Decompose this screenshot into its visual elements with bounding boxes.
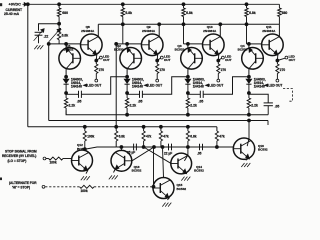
- resistor 270 stage 1: [95, 61, 97, 65]
- wire Q16 collector: [247, 139, 249, 147]
- wire emitter tap stage 3: [218, 58, 221, 60]
- svg-text:RECEIVER (9V LEVEL): RECEIVER (9V LEVEL): [2, 154, 36, 158]
- ground Q15 bottom: [168, 197, 170, 200]
- svg-text:100k: 100k: [87, 135, 94, 139]
- wire base stage 3: [184, 43, 203, 45]
- ground C1: [34, 45, 37, 49]
- svg-text:6.8k: 6.8k: [249, 11, 256, 15]
- capacitor C6 25uF: [133, 144, 135, 151]
- svg-text:.22: .22: [44, 34, 49, 38]
- potentiometer R2 6.8k: [58, 24, 60, 29]
- capacitor C8 .05 right: [199, 144, 201, 150]
- svg-text:6.8k: 6.8k: [125, 11, 132, 15]
- wire bus A: [66, 110, 268, 115]
- wire C1 to ground: [38, 35, 40, 43]
- node bus C x116: [115, 125, 118, 128]
- node QB collector: [161, 146, 164, 149]
- resistor 100k stop: [49, 157, 63, 160]
- transistor NPN stage 1: [81, 34, 103, 56]
- wire 47k to X node: [143, 141, 145, 147]
- resistor 2.2k stage 2: [126, 93, 128, 98]
- svg-text:.05: .05: [138, 100, 143, 104]
- terminal LED OUT lower stage 1: [95, 79, 98, 82]
- resistor 680 stage 4: [278, 4, 280, 8]
- svg-text:6.8k: 6.8k: [186, 11, 193, 15]
- wire collector riser stage 2: [158, 24, 160, 36]
- node collector line x184: [182, 23, 185, 26]
- wire emitter tap stage 4: [277, 58, 285, 60]
- node diode bottom stage 3: [187, 92, 190, 95]
- svg-text:1N4148: 1N4148: [193, 84, 204, 88]
- capacitor .05 stage 2: [139, 91, 141, 98]
- node X right: [153, 146, 156, 149]
- wire base stage 4: [247, 43, 262, 45]
- node collector line stage 2: [158, 23, 161, 26]
- svg-text:2N4064A: 2N4064A: [81, 29, 95, 33]
- svg-text:'HI' = STOP): 'HI' = STOP): [12, 186, 30, 190]
- node stage2 base tee: [115, 43, 118, 46]
- svg-text:BC532: BC532: [175, 48, 185, 52]
- wire 47k to QB riser: [160, 141, 162, 147]
- terminal stop input: [43, 157, 46, 160]
- svg-text:OUT: OUT: [225, 58, 232, 62]
- capacitor C7 22uF: [168, 144, 170, 151]
- wire collector riser stage 3: [219, 24, 221, 36]
- wire 6.8k to FF wire: [115, 141, 117, 147]
- wire emitter tap stage 1: [96, 58, 99, 60]
- svg-text:680: 680: [62, 11, 68, 15]
- wire alt dashed right: [94, 186, 154, 188]
- resistor 270 stage 4: [276, 61, 278, 65]
- wire alt dashed left: [45, 186, 79, 188]
- wire 6.8k to rightFF collector: [187, 141, 189, 147]
- wire Q13 collector stub: [120, 147, 122, 150]
- wire bus B: [49, 120, 268, 122]
- svg-text:2.2k: 2.2k: [251, 104, 258, 108]
- node bus A stage 4: [248, 113, 251, 116]
- resistor R1 680: [58, 4, 60, 8]
- terminal LED OUT lower stage 4: [276, 79, 279, 82]
- node emitter stage 3: [217, 59, 220, 62]
- transistor Q14 FF right: [171, 153, 192, 174]
- svg-text:BC532: BC532: [114, 48, 124, 52]
- transistor NPN stage 3: [203, 34, 225, 56]
- svg-text:1N4148: 1N4148: [132, 84, 143, 88]
- svg-text:.05: .05: [275, 104, 280, 108]
- wire reset line riser: [48, 44, 50, 121]
- capacitor .05 stage 1: [78, 91, 80, 98]
- svg-text:BC532: BC532: [132, 169, 142, 173]
- transistor NPN stage 2: [141, 34, 163, 56]
- wire cap4 to bus A: [267, 106, 269, 115]
- label LED OUT lower stage 2: [145, 84, 148, 86]
- wire emitter lead stage 3: [217, 55, 219, 61]
- diode stage 2: [126, 77, 128, 80]
- resistor 6.8k x116: [115, 127, 117, 131]
- wire emitter lead stage 2: [156, 55, 158, 61]
- wire PNP collector stage 3: [187, 69, 189, 77]
- transistor Q12 stop: [72, 150, 93, 171]
- node bus C x85: [83, 125, 86, 128]
- svg-text:2N4064A: 2N4064A: [203, 29, 217, 33]
- wire PNP emitter stage 2: [126, 44, 128, 48]
- svg-text:(ALTERNATE FOR: (ALTERNATE FOR: [9, 181, 37, 185]
- node bus A stage 2: [126, 113, 129, 116]
- svg-text:.05: .05: [77, 100, 82, 104]
- svg-text:22 µF: 22 µF: [164, 152, 172, 156]
- svg-text:1N4148: 1N4148: [254, 84, 265, 88]
- node collector line x123: [121, 23, 124, 26]
- resistor 6.8k x188: [187, 127, 189, 131]
- node Q14 collector: [187, 146, 190, 149]
- node rail R3: [182, 3, 185, 6]
- wire stage2 base ext: [116, 43, 123, 45]
- svg-text:6.8k: 6.8k: [119, 135, 125, 139]
- resistor 2.2k stage 4: [248, 93, 250, 98]
- svg-text:(LO = STOP): (LO = STOP): [8, 159, 27, 163]
- node base-emitter stage 2: [126, 43, 129, 46]
- capacitor .05 stage 3: [199, 91, 201, 98]
- diode stage 3: [187, 77, 189, 80]
- label LED OUT lower stage 3: [206, 84, 209, 86]
- capacitor .05 stage 4: [264, 102, 273, 104]
- node rail R4: [245, 3, 248, 6]
- transistor PNP Q4 stage 4: [242, 48, 264, 70]
- node emitter stage 1: [95, 59, 98, 62]
- wire stop base: [63, 158, 72, 160]
- ground Q13: [114, 170, 116, 173]
- wire +9V rail: [28, 3, 280, 5]
- terminal LED OUT upper stage 1: [100, 56, 103, 59]
- wire bus B stub: [267, 121, 269, 126]
- ground Q14: [184, 172, 187, 174]
- resistor 47k x144: [143, 127, 145, 131]
- wire cap left stage 1: [66, 93, 78, 95]
- terminal LED OUT upper stage 4: [285, 56, 288, 59]
- node bus B right: [248, 119, 251, 122]
- svg-text:2N4064A: 2N4064A: [262, 29, 276, 33]
- node diode top stage 1: [65, 75, 68, 78]
- svg-text:1N4148: 1N4148: [71, 84, 82, 88]
- transistor Q13 FF left: [111, 150, 132, 171]
- resistor 270 stage 2: [156, 61, 158, 65]
- svg-text:OUT: OUT: [289, 58, 296, 62]
- node stop collector: [83, 148, 86, 151]
- node X left: [142, 146, 145, 149]
- diode stage 1: [65, 77, 67, 80]
- resistor 100k alt: [80, 185, 94, 188]
- node bus C x188: [187, 125, 190, 128]
- wire emitter lead stage 1: [95, 55, 97, 61]
- terminal alt input: [42, 185, 45, 188]
- svg-text:.05: .05: [197, 151, 202, 155]
- wire coupling stage 2: [142, 77, 188, 95]
- svg-text:BC532: BC532: [194, 169, 204, 173]
- svg-text:LED OUT: LED OUT: [148, 84, 162, 88]
- svg-text:BC532: BC532: [177, 187, 187, 191]
- wire coupling stage 1: [81, 77, 127, 95]
- diode stage 4: [248, 77, 250, 80]
- wire collector riser stage 1: [97, 24, 99, 36]
- transistor PNP Q1 stage 1: [59, 48, 81, 70]
- transistor NPN stage 4: [262, 34, 284, 56]
- svg-text:OUT: OUT: [164, 58, 171, 62]
- node diode bottom stage 1: [65, 92, 68, 95]
- node diode top stage 2: [126, 75, 129, 78]
- transistor PNP Q3 stage 3: [181, 48, 203, 70]
- transistor Q15 bottom: [153, 178, 174, 199]
- wire cap left stage 2: [127, 93, 139, 95]
- artifact left low: [0, 178, 2, 181]
- ground Q12: [86, 169, 88, 174]
- wire PNP emitter stage 4: [248, 44, 250, 48]
- wire PNP emitter stage 1: [65, 44, 67, 48]
- wire stop collector to FF: [85, 147, 116, 149]
- resistor 47k x161: [160, 127, 162, 131]
- node 47k Q16 base: [216, 146, 219, 149]
- svg-text:BC532: BC532: [64, 48, 74, 52]
- node emitter stage 4: [276, 59, 279, 62]
- wire PNP emitter stage 3: [187, 44, 189, 48]
- svg-text:6.8k: 6.8k: [62, 33, 69, 37]
- artifact left top: [0, 3, 2, 6]
- svg-text:OUT: OUT: [103, 58, 110, 62]
- wire cap branch: [39, 24, 60, 31]
- node rail R1: [58, 3, 61, 6]
- label LED OUT lower stage 4: [265, 84, 268, 86]
- svg-text:47k: 47k: [219, 135, 225, 139]
- wire QB collector riser: [163, 147, 164, 178]
- wire collector riser stage 4: [278, 24, 280, 36]
- node bus C x144: [142, 125, 145, 128]
- node bus C x161: [160, 125, 163, 128]
- node diode top stage 4: [248, 75, 251, 78]
- wire 100k to stop collector: [84, 141, 86, 149]
- resistor 6.8k stage 2: [122, 4, 124, 8]
- wire stop hold vertical: [153, 147, 155, 187]
- wire emitter lead stage 4: [276, 55, 278, 61]
- svg-text:2N4064A: 2N4064A: [142, 29, 156, 33]
- transistor PNP Q2 stage 2: [120, 48, 142, 70]
- node emitter stage 2: [156, 59, 159, 62]
- node Q13 collector: [120, 146, 123, 149]
- wire X cross 2: [132, 147, 154, 161]
- svg-text:47k: 47k: [163, 135, 169, 139]
- wire Q14 collector: [184, 155, 188, 161]
- node base-emitter stage 4: [248, 43, 251, 46]
- node diode bottom stage 4: [248, 92, 251, 95]
- svg-text:270: 270: [280, 68, 286, 72]
- wire collector line: [98, 23, 279, 25]
- wire dashed LED OUT stage 4: [283, 89, 292, 102]
- node base-emitter stage 1: [65, 43, 68, 46]
- wire FF row: [116, 146, 233, 148]
- svg-text:25-40 mA: 25-40 mA: [4, 12, 20, 16]
- wire left feed vertical: [27, 4, 29, 127]
- wire stop set line upper: [115, 44, 117, 127]
- wire PNP collector stage 1: [65, 69, 67, 77]
- wire base stage 2: [123, 43, 142, 45]
- terminal LED OUT upper stage 3: [222, 56, 225, 59]
- label LED OUT lower stage 1: [84, 84, 87, 86]
- wire cap4 feed: [249, 94, 268, 103]
- ground Q16: [246, 157, 248, 160]
- terminal LED OUT lower stage 3: [217, 79, 220, 82]
- svg-text:+9VDC: +9VDC: [9, 3, 22, 7]
- svg-text:47k: 47k: [146, 135, 152, 139]
- svg-text:LED OUT: LED OUT: [268, 84, 282, 88]
- svg-text:270: 270: [99, 68, 105, 72]
- capacitor C1 .22 trimmer: [35, 31, 43, 33]
- resistor 6.8k stage 4: [246, 4, 248, 8]
- resistor 270 stage 3: [217, 61, 219, 65]
- resistor 6.8k stage 3: [183, 4, 185, 8]
- svg-text:6.8k: 6.8k: [190, 135, 196, 139]
- resistor 100k x85: [84, 127, 86, 131]
- wire emitter tap stage 2: [157, 58, 160, 60]
- svg-text:BC532: BC532: [238, 48, 248, 52]
- node alt junction: [152, 185, 155, 188]
- svg-text:270: 270: [160, 68, 166, 72]
- svg-text:680: 680: [282, 11, 288, 15]
- svg-text:LED OUT: LED OUT: [209, 84, 223, 88]
- svg-text:270: 270: [221, 68, 227, 72]
- node collector line stage 3: [219, 23, 222, 26]
- wire coupling stage 3: [203, 77, 249, 95]
- resistor 2.2k stage 1: [65, 93, 67, 98]
- svg-text:2.2k: 2.2k: [130, 104, 137, 108]
- node diode bottom stage 2: [126, 92, 129, 95]
- terminal LED OUT upper stage 2: [160, 56, 163, 59]
- node base-emitter stage 3: [187, 43, 190, 46]
- wire PNP collector stage 2: [126, 69, 128, 77]
- svg-text:100k: 100k: [50, 161, 57, 165]
- node diode top stage 3: [187, 75, 190, 78]
- node rail R2: [121, 3, 124, 6]
- svg-text:.05: .05: [199, 100, 204, 104]
- terminal LED OUT lower stage 2: [156, 79, 159, 82]
- node pot top: [58, 22, 61, 25]
- wire bus C: [28, 126, 217, 128]
- wire cap left stage 3: [188, 93, 200, 95]
- svg-text:BC532: BC532: [258, 148, 268, 152]
- svg-text:2.2k: 2.2k: [69, 104, 76, 108]
- wire PNP collector stage 4: [248, 69, 250, 77]
- wire X cross 1: [144, 147, 171, 163]
- svg-text:LED OUT: LED OUT: [87, 84, 101, 88]
- node collector line x246: [245, 23, 248, 26]
- svg-text:2.2k: 2.2k: [190, 104, 197, 108]
- resistor 2.2k stage 3: [187, 93, 189, 98]
- node bus A stage 3: [187, 113, 190, 116]
- transistor Q16 right: [233, 138, 254, 159]
- node stage1 base tee: [47, 43, 50, 46]
- wire stage1 base line: [49, 43, 81, 45]
- node rail left: [26, 3, 29, 6]
- resistor 47k line C end: [216, 127, 218, 131]
- svg-text:100k: 100k: [81, 189, 88, 193]
- svg-text:STOP SIGNAL FROM: STOP SIGNAL FROM: [5, 150, 37, 154]
